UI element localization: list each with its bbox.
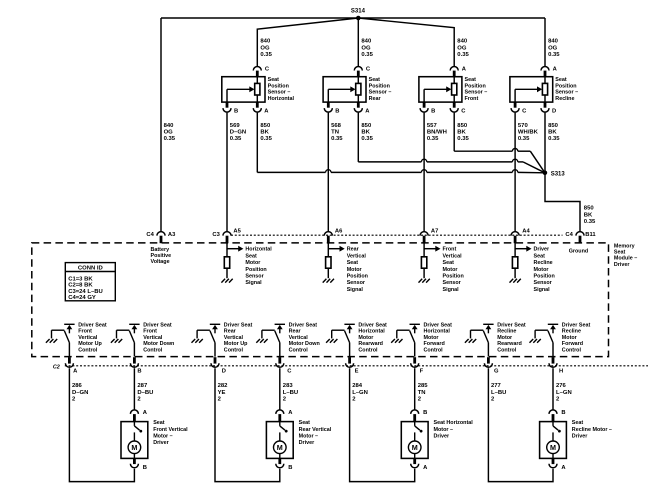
label 283 wire	[283, 383, 298, 402]
ground internal	[323, 268, 334, 282]
label 850 BK 0.35 sensor rear	[361, 123, 373, 142]
svg-text:Motor –: Motor –	[153, 433, 172, 439]
svg-text:277: 277	[491, 383, 502, 389]
svg-text:Signal: Signal	[347, 287, 364, 293]
svg-text:Driver: Driver	[434, 433, 450, 439]
motor M symbol seat horizontal motor	[408, 441, 421, 458]
svg-text:B: B	[234, 108, 238, 114]
module pin B connector C2	[130, 357, 141, 374]
module input Front Vertical sensor signal arrow	[424, 243, 464, 293]
module input Driver Seat sensor signal arrow	[515, 243, 555, 293]
svg-text:C: C	[522, 108, 527, 114]
svg-text:BK: BK	[361, 130, 370, 136]
seat rear vertical motor pin A top connector	[276, 410, 293, 422]
svg-text:Rear Vertical: Rear Vertical	[299, 427, 332, 433]
svg-text:Driver: Driver	[614, 262, 630, 268]
seat position sensor recline pin A top connector	[541, 66, 558, 72]
svg-text:Memory: Memory	[614, 243, 635, 249]
seat position sensor recline label	[555, 77, 578, 102]
wire 850 BK S313 to ground pin B11	[545, 173, 580, 231]
seat horizontal motor pin B top connector	[411, 410, 428, 422]
svg-text:Signal: Signal	[245, 280, 262, 286]
label driver Motor Up Rear	[224, 322, 253, 353]
seat position sensor horizontal box	[222, 71, 265, 108]
svg-text:C: C	[265, 66, 270, 72]
wire 277 seat recline motor left	[488, 368, 553, 481]
module input Horizontal Seat sensor signal arrow	[227, 243, 272, 286]
svg-text:BK: BK	[548, 130, 557, 136]
seat position sensor rear pin C top connector	[354, 66, 371, 72]
svg-text:Motor: Motor	[562, 335, 578, 341]
svg-text:C4: C4	[565, 232, 573, 238]
svg-text:276: 276	[556, 383, 567, 389]
svg-text:282: 282	[218, 383, 229, 389]
svg-text:M: M	[131, 443, 137, 452]
seat recline motor pin B top connector	[549, 410, 566, 422]
svg-text:Motor: Motor	[358, 335, 374, 341]
wire 570 recline sensor signal down to module	[514, 113, 516, 231]
svg-text:C: C	[461, 108, 466, 114]
ground internal	[510, 268, 521, 282]
svg-text:C: C	[287, 368, 292, 374]
driver output Forward Recline control	[530, 324, 559, 356]
svg-text:BN/WH: BN/WH	[427, 130, 447, 136]
module pin F connector C2	[411, 357, 424, 374]
svg-text:D–BU: D–BU	[137, 390, 153, 396]
resistor module input at x 515.1	[512, 257, 517, 268]
svg-text:Rear: Rear	[347, 247, 360, 253]
label 287 wire	[137, 383, 153, 402]
label driver Motor Down Rear	[289, 322, 320, 353]
svg-text:Horizontal: Horizontal	[268, 96, 295, 102]
svg-text:Horizontal: Horizontal	[424, 329, 451, 335]
svg-text:A6: A6	[335, 228, 343, 234]
svg-text:Seat: Seat	[572, 420, 584, 426]
wire 850 BK from sensor rear to S313	[357, 113, 359, 162]
svg-text:C3: C3	[212, 232, 220, 238]
svg-text:285: 285	[418, 383, 429, 389]
module pin H connector C2	[549, 357, 563, 374]
wire S314 to sensor horizontal	[257, 18, 358, 66]
svg-text:568: 568	[331, 123, 342, 129]
svg-text:Driver Seat: Driver Seat	[424, 322, 453, 328]
sensor rear pin A bottom connector	[354, 108, 370, 114]
svg-text:2: 2	[137, 397, 141, 403]
svg-text:Front: Front	[443, 247, 457, 253]
svg-text:Rear: Rear	[369, 96, 382, 102]
svg-text:Seat: Seat	[555, 77, 567, 83]
svg-text:840: 840	[548, 39, 559, 45]
seat position sensor horizontal pin C top connector	[253, 66, 270, 72]
svg-text:Driver Seat: Driver Seat	[143, 322, 172, 328]
label driver Rearward Recline	[497, 322, 526, 353]
seat recline motor pin A bottom connector	[549, 458, 566, 471]
seat front vertical motor pin A top connector	[130, 410, 147, 422]
svg-text:Sensor –: Sensor –	[369, 90, 392, 96]
splice S313	[543, 171, 566, 178]
svg-text:Seat: Seat	[245, 253, 257, 259]
driver output Rearward Recline control	[465, 324, 494, 356]
label 840 OG 0.35 wire to sensor horizontal	[260, 39, 272, 58]
svg-text:Position: Position	[465, 83, 486, 89]
svg-text:850: 850	[260, 123, 271, 129]
label 276 wire	[556, 383, 572, 402]
module top connector dotted line	[231, 234, 563, 236]
svg-text:284: 284	[352, 383, 363, 389]
module pin G connector C2	[484, 357, 499, 374]
svg-text:557: 557	[427, 123, 438, 129]
seat rear vertical motor box with circuit breaker	[266, 422, 293, 459]
svg-text:Vertical: Vertical	[224, 335, 244, 341]
seat position sensor front pin A top connector	[450, 66, 467, 72]
svg-text:Sensor: Sensor	[443, 280, 462, 286]
module pin D connector C2	[211, 357, 226, 374]
seat recline motor box with circuit breaker	[540, 422, 567, 459]
svg-text:Position: Position	[347, 274, 368, 280]
svg-text:L–BU: L–BU	[283, 390, 298, 396]
svg-text:Position: Position	[534, 274, 555, 280]
svg-text:Control: Control	[143, 348, 163, 354]
module bottom connector C2 dotted line	[65, 365, 648, 367]
svg-text:Motor: Motor	[534, 267, 550, 273]
svg-text:Recline: Recline	[562, 329, 581, 335]
svg-text:0.35: 0.35	[427, 136, 439, 142]
svg-text:A: A	[561, 465, 566, 471]
label 840 OG 0.35 battery	[164, 123, 176, 142]
svg-text:0.35: 0.35	[457, 52, 469, 58]
module pin A6 connector	[324, 228, 343, 243]
svg-text:Driver Seat: Driver Seat	[562, 322, 591, 328]
svg-text:C2=8 BK: C2=8 BK	[68, 283, 93, 289]
svg-text:Control: Control	[562, 348, 582, 354]
svg-text:A: A	[553, 66, 558, 72]
wire top supply bus from splice S314	[161, 17, 545, 19]
wire 557 front sensor signal down to module	[423, 113, 425, 231]
label driver Motor Down Front	[143, 322, 174, 353]
seat horizontal motor box with circuit breaker	[401, 422, 428, 459]
svg-text:2: 2	[556, 397, 560, 403]
module pin E connector C2	[346, 357, 359, 374]
wire 287 seat front vertical motor right	[133, 368, 135, 410]
svg-text:850: 850	[584, 206, 595, 212]
svg-text:Positive: Positive	[151, 253, 172, 259]
svg-text:0.35: 0.35	[260, 136, 272, 142]
svg-text:BK: BK	[584, 212, 593, 218]
svg-text:Driver Seat: Driver Seat	[289, 322, 318, 328]
label seat rear vertical motor	[299, 420, 332, 446]
label driver Motor Up Front	[78, 322, 107, 353]
module pin C4 B11 ground connector	[565, 232, 596, 244]
seat rear vertical motor pin B bottom connector	[276, 458, 293, 471]
svg-text:0.35: 0.35	[518, 136, 530, 142]
svg-text:E: E	[355, 368, 359, 374]
label seat recline motor	[572, 420, 612, 439]
svg-text:CONN ID: CONN ID	[78, 266, 103, 272]
module label Memory Seat Module Driver	[614, 243, 637, 268]
svg-text:B11: B11	[585, 232, 596, 238]
svg-text:Recline: Recline	[555, 96, 574, 102]
svg-text:Sensor –: Sensor –	[268, 90, 291, 96]
svg-text:B: B	[431, 108, 435, 114]
svg-text:Seat: Seat	[369, 77, 381, 83]
svg-text:Control: Control	[497, 348, 517, 354]
svg-text:Position: Position	[268, 83, 289, 89]
ground label	[569, 249, 588, 255]
svg-text:B: B	[335, 108, 339, 114]
sensor rear pin B bottom connector	[324, 108, 339, 114]
driver output Rearward Horizontal control	[326, 324, 355, 356]
svg-text:Seat: Seat	[443, 260, 455, 266]
svg-text:B: B	[137, 368, 141, 374]
svg-text:Recline: Recline	[497, 329, 516, 335]
svg-text:H: H	[559, 368, 563, 374]
svg-text:840: 840	[260, 39, 271, 45]
sensor horizontal pin B bottom connector	[223, 108, 238, 114]
svg-text:L–BU: L–BU	[491, 390, 506, 396]
svg-text:Motor: Motor	[424, 335, 440, 341]
label signal wire sensor rear	[331, 123, 343, 142]
svg-text:Driver Seat: Driver Seat	[224, 322, 253, 328]
svg-text:Driver: Driver	[534, 247, 550, 253]
svg-text:850: 850	[548, 123, 559, 129]
sensor front pin B bottom connector	[420, 108, 435, 114]
svg-text:Vertical: Vertical	[443, 253, 463, 259]
wire 568 rear sensor signal down to module	[327, 113, 329, 231]
label 284 wire	[352, 383, 368, 402]
svg-text:Recline: Recline	[534, 260, 553, 266]
svg-text:Driver: Driver	[299, 440, 315, 446]
svg-text:850: 850	[457, 123, 468, 129]
svg-text:Vertical: Vertical	[78, 335, 98, 341]
label 285 wire	[418, 383, 429, 402]
label signal wire sensor front	[427, 123, 447, 142]
connector C2 label	[53, 364, 60, 370]
module pin A connector C2	[65, 357, 78, 374]
svg-text:A: A	[264, 108, 269, 114]
label driver Forward Horizontal	[424, 322, 453, 353]
svg-text:Vertical: Vertical	[143, 335, 163, 341]
label signal wire sensor recline	[518, 123, 539, 142]
svg-text:Control: Control	[424, 348, 444, 354]
svg-text:Ground: Ground	[569, 249, 588, 255]
svg-text:C1=3 BK: C1=3 BK	[68, 277, 93, 283]
svg-text:Front: Front	[78, 329, 92, 335]
wire 850 BK from sensor recline to S313	[544, 113, 546, 173]
ground internal	[221, 268, 232, 282]
svg-text:A5: A5	[233, 228, 241, 234]
svg-text:Sensor –: Sensor –	[465, 90, 488, 96]
wire 850 BK from sensor front to S313	[453, 113, 455, 152]
label 850 BK 0.35 sensor horizontal	[260, 123, 272, 142]
svg-text:286: 286	[72, 383, 83, 389]
svg-text:Motor: Motor	[497, 335, 513, 341]
svg-text:0.35: 0.35	[361, 52, 373, 58]
svg-text:L–GN: L–GN	[352, 390, 368, 396]
svg-text:OG: OG	[164, 130, 174, 136]
svg-text:C: C	[366, 66, 371, 72]
svg-text:Position: Position	[555, 83, 576, 89]
wire 282 seat rear vertical motor left	[215, 368, 280, 481]
module pin C4 A3 battery connector	[146, 232, 176, 244]
svg-text:A7: A7	[431, 228, 438, 234]
svg-text:840: 840	[457, 39, 468, 45]
label driver Rearward Horizontal	[358, 322, 387, 353]
svg-text:0.35: 0.35	[361, 136, 373, 142]
svg-text:Seat: Seat	[465, 77, 477, 83]
svg-text:Motor Down: Motor Down	[143, 341, 174, 347]
svg-text:OG: OG	[260, 45, 270, 51]
svg-text:Sensor –: Sensor –	[555, 90, 578, 96]
seat horizontal motor pin A bottom connector	[411, 458, 428, 471]
svg-text:TN: TN	[331, 130, 339, 136]
svg-text:Driver: Driver	[153, 440, 169, 446]
svg-text:Position: Position	[443, 274, 464, 280]
svg-text:Vertical: Vertical	[289, 335, 309, 341]
svg-text:Forward: Forward	[562, 341, 583, 347]
svg-text:B: B	[143, 465, 147, 471]
svg-text:2: 2	[283, 397, 287, 403]
svg-text:0.35: 0.35	[230, 136, 242, 142]
svg-text:Rear: Rear	[289, 329, 302, 335]
svg-text:Sensor: Sensor	[347, 280, 366, 286]
svg-text:D: D	[222, 368, 226, 374]
sensor horizontal pin A bottom connector	[253, 108, 269, 114]
seat position sensor rear label	[369, 77, 392, 102]
svg-text:C4: C4	[146, 232, 154, 238]
label signal wire sensor horizontal	[230, 123, 246, 142]
svg-text:0.35: 0.35	[584, 219, 596, 225]
svg-text:Control: Control	[224, 348, 244, 354]
svg-text:Front Vertical: Front Vertical	[153, 427, 188, 433]
svg-text:2: 2	[491, 397, 495, 403]
svg-text:OG: OG	[457, 45, 467, 51]
sensor recline pin D bottom connector	[541, 108, 556, 114]
resistor module input at x 424.1	[421, 257, 426, 268]
svg-text:Motor: Motor	[245, 260, 261, 266]
svg-text:Position: Position	[369, 83, 390, 89]
svg-text:287: 287	[137, 383, 148, 389]
svg-text:570: 570	[518, 123, 529, 129]
svg-text:Seat: Seat	[268, 77, 280, 83]
svg-text:Motor: Motor	[347, 267, 363, 273]
svg-text:Sensor: Sensor	[534, 280, 553, 286]
svg-text:A: A	[462, 66, 467, 72]
svg-text:Seat: Seat	[347, 260, 359, 266]
svg-text:850: 850	[361, 123, 372, 129]
svg-text:Seat: Seat	[299, 420, 311, 426]
CONN ID table	[65, 263, 115, 302]
svg-text:Sensor: Sensor	[245, 274, 264, 280]
wire 276 seat recline motor right	[552, 368, 554, 410]
svg-text:Motor Down: Motor Down	[289, 341, 320, 347]
svg-text:A: A	[423, 465, 428, 471]
seat position sensor horizontal label	[268, 77, 295, 102]
svg-text:Front: Front	[143, 329, 157, 335]
svg-text:2: 2	[72, 397, 76, 403]
svg-text:Seat: Seat	[534, 253, 546, 259]
label 850 BK 0.35 sensor front	[457, 123, 469, 142]
svg-text:A3: A3	[168, 232, 176, 238]
module pin A7 connector	[420, 228, 438, 243]
wire 285 seat horizontal motor right	[414, 368, 416, 410]
wire battery feed 840 OG left drop	[160, 18, 162, 231]
seat position sensor front label	[465, 77, 488, 102]
svg-text:840: 840	[361, 39, 372, 45]
svg-text:Driver Seat: Driver Seat	[497, 322, 526, 328]
svg-text:A: A	[365, 108, 370, 114]
svg-text:Rearward: Rearward	[358, 341, 383, 347]
motor M symbol seat recline motor	[547, 441, 560, 458]
svg-text:Motor –: Motor –	[299, 433, 318, 439]
svg-text:840: 840	[164, 123, 175, 129]
svg-text:D: D	[552, 108, 556, 114]
svg-text:S314: S314	[351, 8, 366, 14]
module input Rear Vertical sensor signal arrow	[328, 243, 368, 293]
wire S314 to sensor rear	[357, 18, 359, 66]
motor M symbol seat front vertical motor	[128, 441, 141, 458]
svg-text:YE: YE	[218, 390, 226, 396]
svg-text:A4: A4	[522, 228, 530, 234]
svg-text:Control: Control	[358, 348, 378, 354]
resistor module input at x 227.0	[224, 257, 229, 268]
wire 850 BK from sensor horizontal to S313	[256, 113, 258, 173]
svg-text:Recline Motor –: Recline Motor –	[572, 427, 612, 433]
svg-text:A: A	[288, 410, 293, 416]
svg-text:C4=24 GY: C4=24 GY	[68, 295, 96, 301]
seat position sensor rear box	[323, 71, 366, 108]
seat position sensor front box	[419, 71, 462, 108]
svg-text:BK: BK	[260, 130, 269, 136]
module pin C3 A5 connector	[212, 228, 241, 243]
sensor recline pin C bottom connector	[511, 108, 527, 114]
svg-text:2: 2	[218, 397, 222, 403]
svg-text:OG: OG	[361, 45, 371, 51]
svg-text:Motor Up: Motor Up	[224, 341, 248, 347]
driver output Motor Up Rear control	[192, 324, 221, 356]
svg-text:D–GN: D–GN	[230, 130, 246, 136]
svg-text:Seat: Seat	[614, 250, 626, 256]
label 850 BK 0.35 sensor recline	[548, 123, 560, 142]
label 840 OG 0.35 wire to sensor rear	[361, 39, 373, 58]
wire 284 seat horizontal motor left	[350, 368, 415, 481]
svg-text:Vertical: Vertical	[347, 253, 367, 259]
wire 283 seat rear vertical motor right	[279, 368, 281, 410]
memory seat module driver dashed box	[32, 243, 609, 357]
label 282 wire	[218, 383, 229, 402]
svg-text:Control: Control	[78, 348, 98, 354]
svg-text:B: B	[561, 410, 565, 416]
svg-text:B: B	[423, 410, 427, 416]
svg-text:Battery: Battery	[151, 247, 170, 253]
driver output Motor Down Front control	[111, 324, 140, 356]
driver output Motor Down Rear control	[256, 324, 285, 356]
wire 569 horizontal sensor signal down to module	[226, 113, 228, 231]
label driver Forward Recline	[562, 322, 591, 353]
svg-text:Front: Front	[465, 96, 479, 102]
wire 286 seat front vertical motor left	[69, 368, 134, 481]
svg-text:2: 2	[352, 397, 356, 403]
svg-text:TN: TN	[418, 390, 426, 396]
motor M symbol seat rear vertical motor	[274, 441, 287, 458]
svg-text:M: M	[277, 443, 283, 452]
svg-text:A: A	[73, 368, 78, 374]
svg-text:C3=24 L–BU: C3=24 L–BU	[68, 289, 103, 295]
svg-text:Module –: Module –	[614, 256, 637, 262]
label 850 BK 0.35 ground wire	[584, 206, 596, 225]
svg-text:Rear: Rear	[224, 329, 237, 335]
module pin A4 connector	[511, 228, 530, 243]
svg-text:Horizontal: Horizontal	[245, 247, 272, 253]
